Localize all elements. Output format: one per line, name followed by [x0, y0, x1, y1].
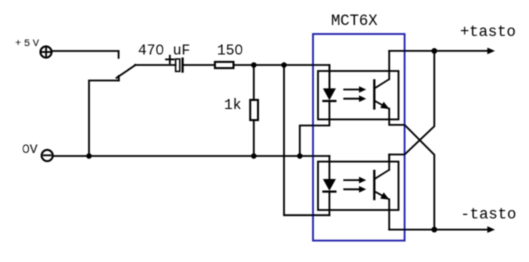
terminal +5V — [40, 46, 51, 57]
switch S1 pole stub — [118, 76, 120, 81]
terminal 0V — [42, 150, 53, 161]
svg-text:MCT6X: MCT6X — [331, 12, 378, 30]
phototransistor Q2 collector wire — [388, 155, 390, 170]
resistor R2 1k — [250, 100, 258, 120]
phototransistor Q1 collector wire to +tasto — [388, 51, 390, 79]
LED D2 symbol — [322, 179, 336, 192]
wire 1k branch top — [253, 65, 255, 100]
capacitor C1 negative plate — [182, 59, 184, 72]
phototransistor Q1 emitter wire and cross to -tasto — [389, 109, 434, 230]
phototransistor Q2 symbol — [374, 170, 389, 200]
junction node A1 (switch-0V) — [86, 153, 92, 159]
switch S1 arm — [117, 65, 136, 78]
wire anti-parallel branch (node A down to lower LED cathode) — [284, 65, 329, 215]
LED D1 light arrows — [343, 86, 366, 102]
zero glyph center masks — [159, 48, 162, 51]
wire switch pole to ground branch — [89, 81, 119, 157]
wire node A rail — [235, 65, 330, 89]
junction node A7 (-tasto) — [431, 227, 437, 233]
wire 1k branch bottom — [253, 120, 255, 156]
svg-text:-tasto: -tasto — [461, 206, 517, 224]
phototransistor Q1 symbol — [374, 79, 389, 109]
junction node A2 (1k top) — [251, 62, 256, 68]
wire +tasto branch down and cross to Q2 collector — [389, 51, 434, 162]
arrow +tasto — [487, 48, 495, 55]
wire +5V to switch — [53, 51, 119, 58]
phototransistor Q2 emitter wire to -tasto — [388, 199, 390, 229]
LED D2 anode wire from 0V — [328, 156, 330, 179]
svg-text:470 uF: 470 uF — [138, 44, 190, 60]
arrow -tasto — [487, 226, 495, 233]
resistor R1 150 — [215, 62, 234, 68]
LED D2 cathode wire — [328, 192, 330, 216]
svg-text:+5V: +5V — [15, 38, 42, 50]
optocoupler U1B package — [318, 162, 399, 210]
svg-text:+tasto: +tasto — [460, 23, 516, 41]
wire +tasto — [389, 50, 488, 52]
IC outline MCT6X (blue box) — [313, 34, 405, 241]
junction node A4 (1k bottom) — [251, 153, 256, 159]
svg-text:1k: 1k — [224, 98, 241, 114]
capacitor C1 polarity plus — [166, 58, 174, 60]
capacitor C1 470uF positive plate — [176, 59, 180, 71]
LED D1 symbol — [322, 88, 336, 101]
LED D2 light arrows — [343, 177, 366, 193]
optocoupler U1A package — [318, 71, 399, 119]
junction node A6 (+tasto) — [431, 48, 437, 54]
wire 0V rail — [54, 155, 330, 157]
wire capacitor to resistor 150 — [184, 64, 215, 66]
wire -tasto — [389, 229, 488, 231]
junction node A5 (LED D1 cathode at 0V) — [297, 153, 303, 159]
wire switch to capacitor — [135, 64, 176, 66]
junction node A3 (anti-parallel top) — [281, 62, 287, 68]
LED D1 cathode wire to 0V — [300, 101, 330, 156]
LED D1 anode wire — [328, 65, 330, 89]
